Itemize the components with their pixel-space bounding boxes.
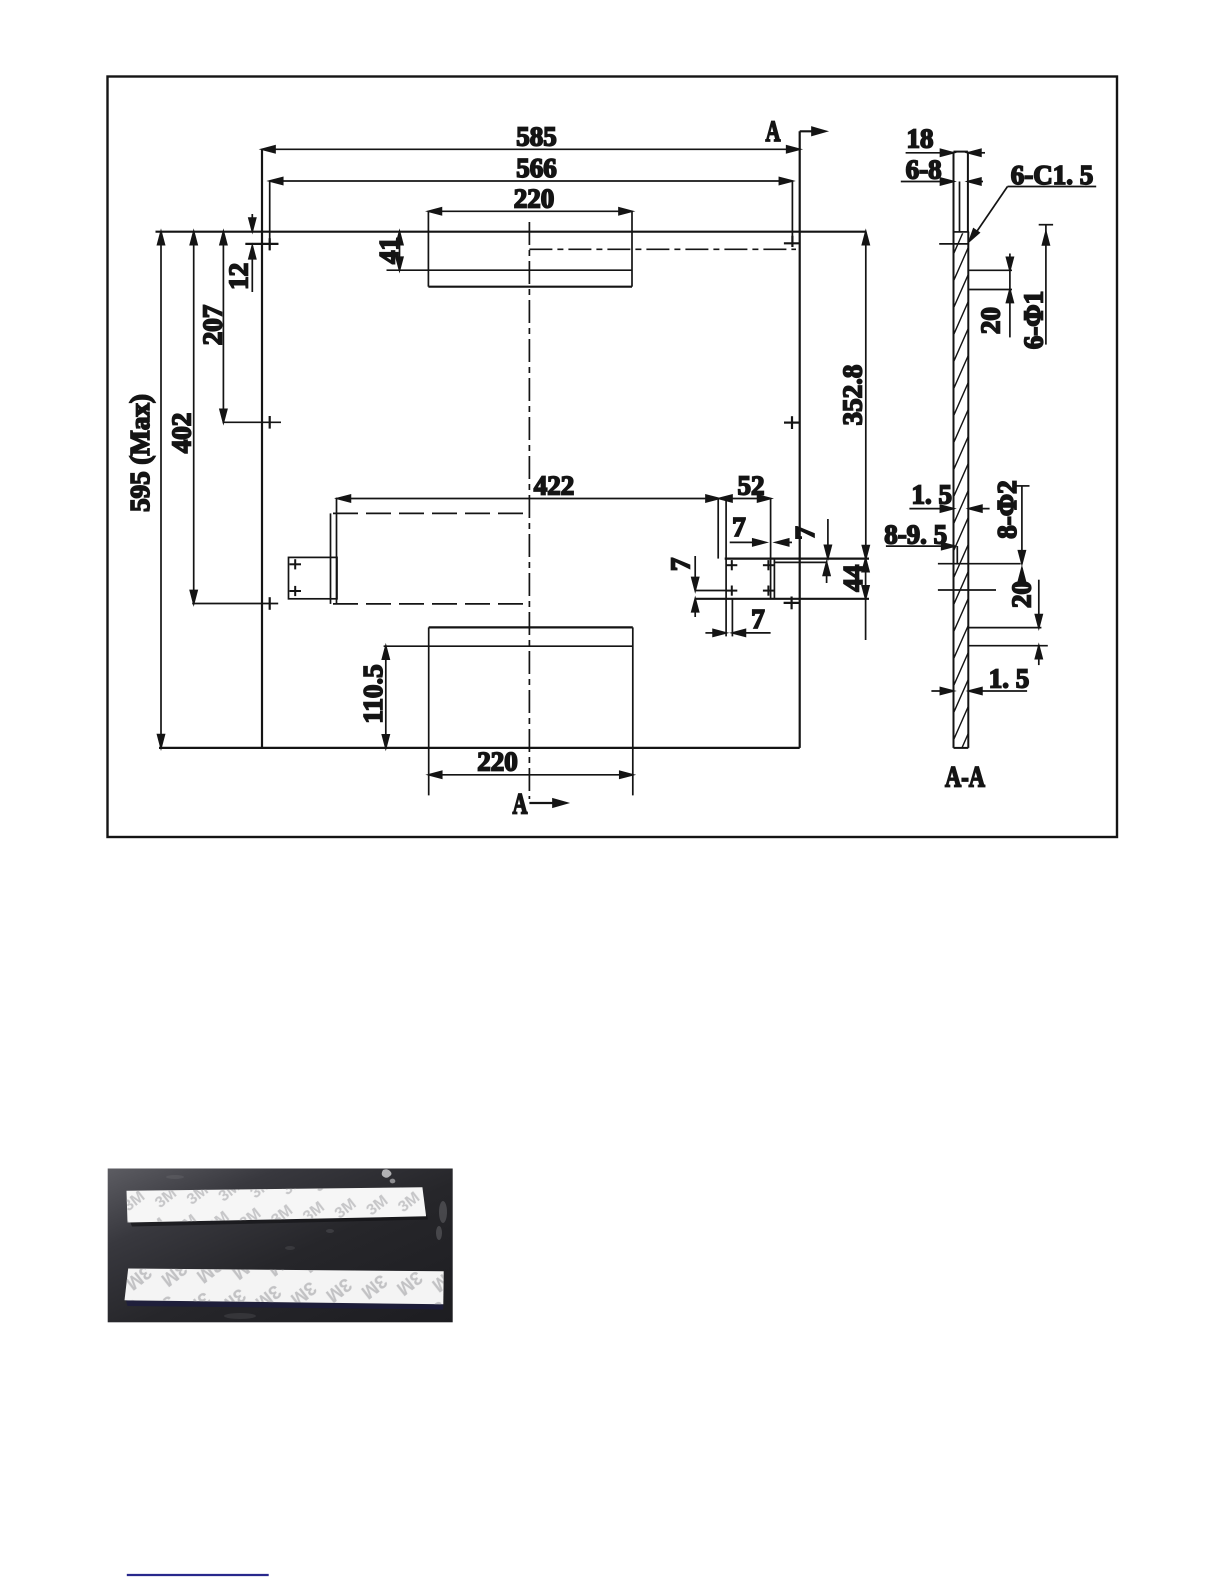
svg-text:220: 220: [477, 747, 518, 777]
bottom slot: [384, 627, 633, 795]
strip 2: [125, 1269, 444, 1305]
section notch: [956, 546, 958, 564]
right square cross 3: [726, 586, 737, 596]
section arrow A bottom: [529, 799, 567, 807]
right square cross 2: [763, 560, 774, 570]
svg-text:402: 402: [167, 413, 197, 454]
svg-text:18: 18: [907, 124, 934, 154]
dimension 585: [262, 146, 800, 153]
dimension 12: [245, 214, 278, 292]
dimension 422: [337, 495, 719, 502]
svg-text:7: 7: [666, 558, 696, 572]
right square cross 4: [763, 586, 774, 596]
hole cross low-left: [269, 597, 271, 610]
svg-text:220: 220: [514, 184, 555, 214]
center line vertical: [528, 222, 530, 799]
dimension 1.5 lower: [931, 688, 1027, 695]
left bracket cross 1: [290, 559, 302, 569]
svg-text:207: 207: [198, 305, 228, 346]
dimension 220 top: [428, 208, 632, 215]
svg-text:585: 585: [516, 122, 557, 152]
dimension 7 bottom: [705, 630, 770, 637]
svg-text:41: 41: [374, 237, 404, 264]
dimension 44: [862, 559, 869, 640]
footer blue line: [127, 1574, 269, 1576]
hidden channel dashed top: [333, 512, 529, 514]
svg-text:44: 44: [838, 565, 868, 592]
svg-text:566: 566: [516, 153, 557, 183]
dimension 352.8: [862, 232, 869, 559]
dimension 20 lower: [969, 580, 1048, 665]
svg-text:7: 7: [751, 604, 765, 634]
dimension 220 bottom: [429, 771, 633, 778]
strip 1 shadow: [130, 1215, 428, 1227]
label 6-C1.5 with leader: [969, 187, 1096, 242]
svg-text:1. 5: 1. 5: [911, 480, 952, 510]
svg-text:595 (Max): 595 (Max): [125, 394, 155, 512]
dimension 18: [906, 149, 985, 156]
dimension 6-phi1: [1039, 225, 1053, 345]
hidden channel dashed bottom: [333, 603, 529, 605]
svg-text:422: 422: [534, 471, 575, 501]
svg-text:110.5: 110.5: [358, 664, 388, 723]
dimension 595 (Max): [158, 232, 165, 748]
dimension 566: [270, 178, 793, 185]
dimension 1.5 upper: [909, 505, 989, 512]
section strip outline: [954, 152, 969, 748]
left hem line: [269, 181, 271, 250]
svg-text:52: 52: [738, 471, 765, 501]
hole cross top-right: [784, 236, 800, 247]
dimension 20 upper: [969, 254, 1013, 338]
svg-text:7: 7: [790, 526, 820, 540]
section hole line 1: [938, 563, 1021, 565]
dimension 110.5: [382, 646, 389, 748]
section arrow A top: [800, 127, 826, 135]
outer frame: [108, 77, 1118, 838]
svg-text:6-C1. 5: 6-C1. 5: [1011, 160, 1094, 190]
dimension 7 left rotated: [692, 556, 727, 617]
panel top edge: [156, 231, 866, 233]
dimension 52: [718, 495, 770, 558]
svg-text:A: A: [513, 788, 528, 821]
right square cross 1: [726, 560, 737, 570]
right hem line: [791, 181, 793, 247]
svg-text:6-Φ1: 6-Φ1: [1019, 291, 1049, 349]
dimension 207: [220, 232, 281, 423]
svg-text:8-9. 5: 8-9. 5: [884, 520, 947, 550]
photo dust spot: [382, 1169, 396, 1183]
panel right edge / section line A: [799, 131, 801, 748]
dimension 8-9.5: [886, 543, 955, 550]
dimension 41: [396, 232, 403, 271]
left bracket cross 2: [290, 586, 302, 596]
hole cross mid-left: [269, 416, 271, 429]
right square bracket: [695, 500, 869, 636]
dimension 7 right rotated: [823, 519, 831, 583]
center line horizontal top slot: [529, 248, 796, 250]
section tab hole line: [959, 182, 961, 232]
svg-text:A-A: A-A: [945, 761, 985, 794]
svg-text:20: 20: [1007, 581, 1037, 608]
svg-text:A: A: [766, 115, 781, 148]
dimension 8-phi2: [1014, 486, 1030, 582]
panel bottom edge: [159, 747, 800, 749]
svg-text:6-8: 6-8: [906, 155, 942, 185]
strip 2 shadow: [126, 1301, 443, 1310]
section plate top line: [954, 231, 970, 233]
section hole line 2: [938, 589, 996, 591]
svg-text:20: 20: [976, 307, 1006, 334]
hole cross top-left: [245, 238, 278, 250]
hole cross mid-right: [784, 416, 800, 429]
svg-text:352.8: 352.8: [838, 365, 868, 426]
hole cross low-right: [784, 597, 800, 610]
section ext line y244: [939, 243, 969, 245]
dimension 7 top: [730, 539, 792, 546]
strip 1: [127, 1187, 427, 1222]
svg-text:8-Φ2: 8-Φ2: [992, 480, 1022, 538]
photo smudges: [166, 1175, 447, 1319]
dimension 6-8: [901, 178, 983, 185]
dimension 402: [190, 232, 278, 604]
left bracket: [289, 498, 338, 604]
section hatching: [950, 212, 972, 802]
svg-text:7: 7: [732, 512, 746, 542]
top slot: [387, 211, 633, 286]
panel left edge: [261, 149, 263, 748]
svg-text:12: 12: [224, 263, 254, 290]
svg-text:1. 5: 1. 5: [989, 664, 1030, 694]
